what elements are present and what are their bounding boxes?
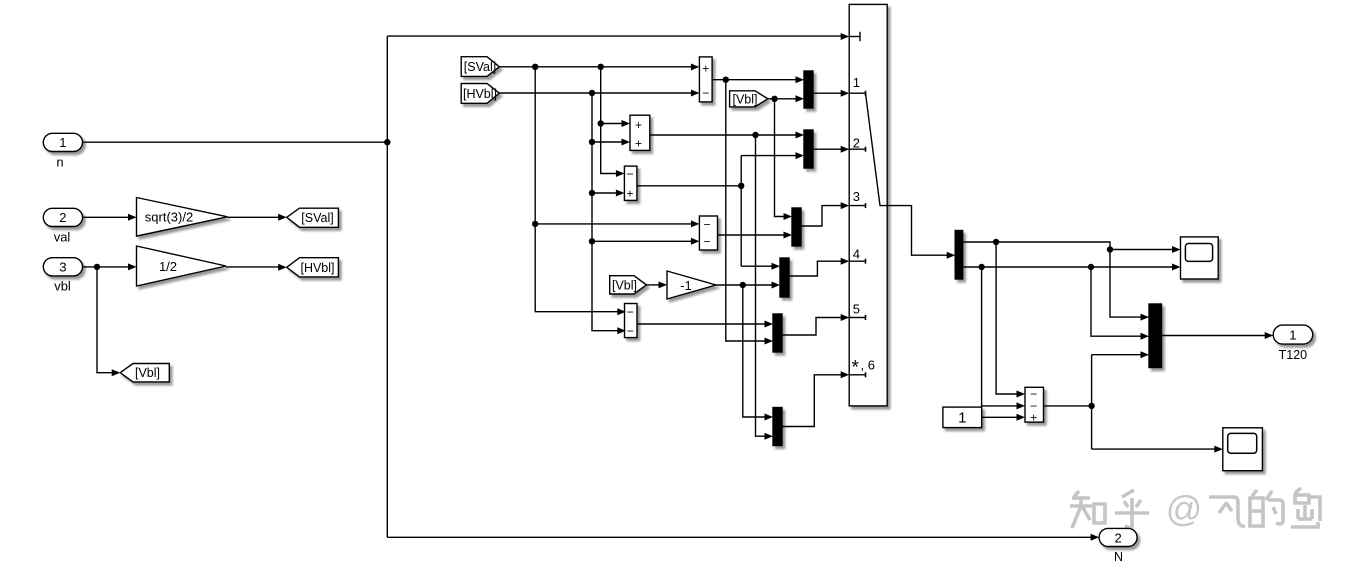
svg-text:*: * bbox=[852, 358, 860, 379]
svg-text:−: − bbox=[703, 235, 710, 249]
svg-text:val: val bbox=[54, 230, 71, 245]
svg-text:[Vbl]: [Vbl] bbox=[732, 92, 757, 106]
svg-text:2: 2 bbox=[853, 136, 860, 151]
svg-text:[SVal]: [SVal] bbox=[301, 211, 333, 225]
svg-text:[SVal]: [SVal] bbox=[464, 60, 496, 74]
svg-text:+: + bbox=[626, 186, 633, 200]
svg-text:+: + bbox=[635, 118, 642, 132]
svg-text:5: 5 bbox=[853, 302, 860, 317]
svg-text:+: + bbox=[635, 136, 642, 150]
svg-text:vbl: vbl bbox=[54, 279, 71, 294]
svg-text:−: − bbox=[626, 167, 633, 181]
svg-text:3: 3 bbox=[853, 189, 860, 204]
svg-text:N: N bbox=[1114, 550, 1123, 564]
svg-text:[HVbl]: [HVbl] bbox=[463, 87, 497, 101]
svg-text:sqrt(3)/2: sqrt(3)/2 bbox=[145, 210, 193, 225]
svg-text:+: + bbox=[1030, 411, 1037, 425]
svg-text:1: 1 bbox=[1289, 327, 1296, 342]
svg-text:−: − bbox=[702, 86, 709, 100]
svg-text:4: 4 bbox=[853, 246, 860, 261]
svg-text:−: − bbox=[627, 324, 634, 338]
svg-text:n: n bbox=[56, 155, 63, 170]
svg-text:-1: -1 bbox=[680, 278, 692, 293]
svg-text:[Vbl]: [Vbl] bbox=[612, 278, 637, 292]
svg-text:−: − bbox=[627, 305, 634, 319]
svg-text:1: 1 bbox=[853, 75, 860, 90]
svg-text:, 6: , 6 bbox=[861, 357, 875, 372]
svg-text:1: 1 bbox=[59, 135, 66, 150]
svg-text:3: 3 bbox=[59, 260, 66, 275]
svg-text:+: + bbox=[702, 61, 709, 75]
svg-text:2: 2 bbox=[59, 210, 66, 225]
svg-text:1/2: 1/2 bbox=[159, 259, 177, 274]
svg-text:2: 2 bbox=[1114, 530, 1121, 545]
svg-text:1: 1 bbox=[958, 410, 966, 427]
svg-text:[Vbl]: [Vbl] bbox=[135, 366, 160, 380]
svg-text:−: − bbox=[703, 217, 710, 231]
svg-text:@: @ bbox=[1166, 488, 1203, 529]
svg-text:[HVbl]: [HVbl] bbox=[300, 261, 334, 275]
svg-text:T120: T120 bbox=[1279, 348, 1308, 362]
